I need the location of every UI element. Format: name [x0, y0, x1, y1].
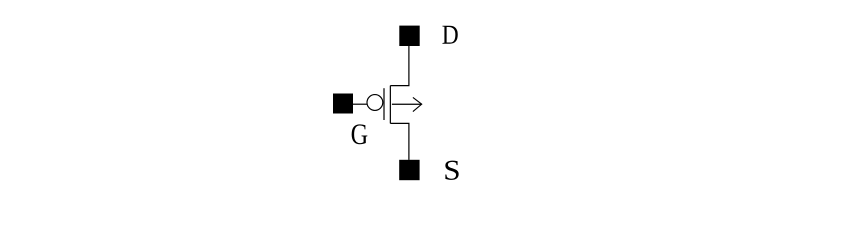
- wire drain (channel to D pad): [390, 46, 409, 86]
- label S: [445, 161, 458, 180]
- arrow shaft (source arrow pointing right): [392, 103, 422, 105]
- wire source (channel to S pad): [390, 123, 409, 159]
- label D: [442, 26, 457, 44]
- pin pad G (gate terminal square): [333, 94, 353, 114]
- bubble (PMOS gate inversion circle): [367, 95, 383, 111]
- label G: [352, 124, 368, 144]
- wire gate (pad to bubble): [353, 103, 367, 105]
- gate bar (vertical gate electrode): [383, 88, 385, 120]
- pin pad S (source terminal square): [399, 160, 419, 180]
- arrow head (open barbs): [413, 97, 422, 111]
- channel bar (vertical channel plate): [389, 86, 391, 124]
- pin pad D (drain terminal square): [399, 26, 419, 46]
